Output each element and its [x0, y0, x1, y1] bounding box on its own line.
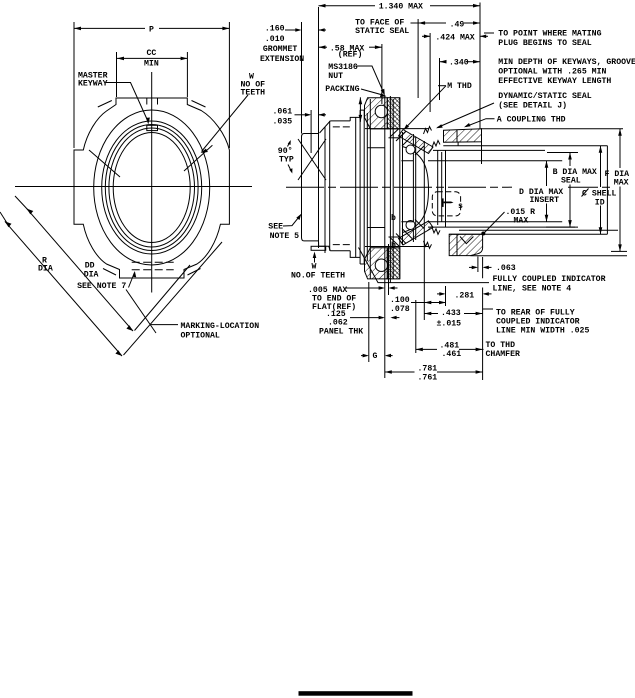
svg-text:.078: .078 [390, 305, 410, 314]
dimension R DIA [5, 221, 122, 356]
svg-text:.160: .160 [265, 25, 285, 34]
svg-text:A COUPLING THD: A COUPLING THD [497, 116, 566, 125]
dimension .340 [440, 61, 447, 63]
nut height mini dimension [359, 97, 361, 122]
svg-text:CHAMFER: CHAMFER [486, 350, 520, 359]
svg-text:DIA: DIA [38, 265, 53, 274]
teeth disk OD bottom [367, 227, 385, 229]
svg-text:MIN: MIN [144, 59, 159, 68]
svg-text:.035: .035 [273, 118, 293, 127]
svg-text:.061: .061 [273, 108, 293, 117]
svg-text:MARKING-LOCATION: MARKING-LOCATION [181, 322, 260, 331]
shell mid line [324, 127, 326, 253]
svg-text:b: b [391, 241, 396, 251]
svg-text:SEE: SEE [268, 223, 283, 232]
svg-text:PLUG BEGINS TO SEAL: PLUG BEGINS TO SEAL [498, 39, 591, 48]
serration tick upper-right [184, 145, 212, 171]
shell neck line [402, 132, 404, 245]
indicator line verticals [478, 257, 483, 279]
corner seam SE [188, 269, 201, 276]
hatch strokes seal zone bottom [390, 220, 424, 247]
svg-text:.281: .281 [455, 292, 475, 301]
svg-text:SEAL: SEAL [561, 176, 581, 185]
corner seam SW [103, 269, 116, 276]
coupling inner lip lines [457, 130, 458, 256]
svg-text:.461: .461 [442, 350, 462, 359]
svg-text:.063: .063 [496, 264, 516, 273]
panel left face [384, 96, 386, 378]
DD hidden dashed lines [132, 261, 174, 263]
seal face line [423, 141, 425, 320]
nut skirt edge bottom [389, 236, 401, 238]
shell body bottom edge [330, 250, 350, 252]
svg-text:MAX: MAX [614, 178, 629, 187]
M thread zigzag bottom [424, 241, 432, 249]
svg-text:COUPLED INDICATOR: COUPLED INDICATOR [496, 318, 580, 327]
svg-text:.433: .433 [441, 309, 461, 318]
svg-text:TYP: TYP [279, 155, 294, 164]
coupling nut top section [444, 129, 482, 143]
svg-text:MAX: MAX [514, 217, 529, 226]
section centerline [286, 186, 512, 188]
corner seam NE [192, 101, 206, 108]
shell front face [606, 146, 608, 235]
MS3186 nut bottom section [365, 248, 388, 279]
teeth ring faces [355, 117, 357, 257]
svg-text:(SEE DETAIL J): (SEE DETAIL J) [498, 101, 567, 111]
dimension 1.340 MAX [319, 5, 376, 7]
svg-text:.340: .340 [449, 59, 469, 68]
svg-text:NO.OF TEETH: NO.OF TEETH [291, 271, 345, 280]
svg-text:s: s [458, 202, 463, 211]
svg-text:MIN DEPTH OF KEYWAYS, GROOVE: MIN DEPTH OF KEYWAYS, GROOVE [498, 58, 635, 67]
svg-text:LINE, SEE NOTE 4: LINE, SEE NOTE 4 [493, 285, 572, 294]
tooth circle 3 [109, 128, 195, 247]
dimension DD DIA [27, 209, 133, 331]
M thread zigzag top [424, 127, 432, 135]
nut skirt line [392, 99, 394, 279]
svg-text:1.340 MAX: 1.340 MAX [379, 3, 423, 12]
svg-text:G: G [373, 352, 378, 361]
hatch strokes seal zone top [390, 129, 424, 156]
horizontal centerline [15, 186, 252, 188]
svg-text:.062: .062 [328, 319, 348, 328]
svg-text:DYNAMIC/STATIC SEAL: DYNAMIC/STATIC SEAL [498, 91, 591, 101]
corner seam NW [98, 101, 112, 108]
teeth disk OD top [367, 147, 385, 149]
nut upper edge bottom [365, 246, 429, 248]
svg-text:.100: .100 [390, 296, 410, 305]
dimension .49 [418, 22, 446, 24]
front shell ID bottom [449, 233, 607, 235]
svg-text:.424 MAX: .424 MAX [435, 33, 474, 42]
svg-text:TEETH: TEETH [241, 88, 266, 97]
coupling OD bottom line [471, 255, 628, 257]
seal bore bottom long [459, 229, 618, 231]
inner ring edge ellipse [94, 110, 210, 265]
detail J dashed boundary [432, 192, 460, 216]
svg-text:PANEL THK: PANEL THK [319, 328, 363, 337]
svg-text:DIA: DIA [84, 270, 99, 279]
thread crest line [415, 137, 417, 240]
seal cavity walls [438, 150, 446, 227]
svg-text:b: b [391, 213, 396, 223]
leader SEE NOTE 7 [129, 273, 135, 288]
packing gland crosshatch top [387, 98, 400, 129]
insert bore top [401, 160, 562, 162]
dimension P [74, 27, 145, 29]
hidden line top [333, 126, 352, 128]
bell curve [403, 147, 429, 233]
master keyway slot top [147, 98, 158, 105]
grommet body [302, 134, 319, 241]
shell body inner line [329, 121, 331, 251]
thread root line [412, 134, 414, 242]
svg-text:OPTIONAL: OPTIONAL [181, 332, 220, 341]
packing ball top [375, 105, 387, 117]
svg-text:.010: .010 [265, 35, 285, 44]
svg-text:TO THD: TO THD [486, 341, 516, 350]
dimension CC MIN [117, 57, 188, 59]
svg-text:OPTIONAL WITH .265 MIN: OPTIONAL WITH .265 MIN [498, 68, 606, 77]
svg-text:EXTENSION: EXTENSION [260, 55, 304, 64]
dimension .58 MAX (REF) [319, 46, 328, 48]
svg-text:PACKING: PACKING [325, 85, 359, 94]
svg-text:P: P [149, 26, 154, 35]
svg-text:ID: ID [595, 198, 605, 207]
svg-text:EFFECTIVE KEYWAY LENGTH: EFFECTIVE KEYWAY LENGTH [498, 77, 611, 86]
svg-text:LINE MIN WIDTH .025: LINE MIN WIDTH .025 [496, 327, 589, 336]
nut skirt edge top [389, 137, 401, 139]
svg-text:.781: .781 [418, 365, 438, 374]
svg-text:±.015: ±.015 [437, 320, 462, 329]
seal bore top [433, 150, 578, 152]
packing gland crosshatch bottom [387, 248, 400, 279]
svg-text:TO REAR OF FULLY: TO REAR OF FULLY [496, 309, 575, 318]
svg-text:M THD: M THD [447, 82, 472, 91]
nut lower edge top [365, 128, 429, 130]
front shell ID top [443, 145, 607, 147]
shell rear chamfer top [320, 121, 331, 133]
svg-text:SEE NOTE 7: SEE NOTE 7 [77, 282, 126, 291]
seal o-ring bottom [406, 221, 415, 230]
shell body top edge [330, 120, 350, 122]
90 deg chamfer X [298, 139, 326, 180]
extension line lower to DD tip [135, 265, 191, 331]
svg-text:FULLY COUPLED INDICATOR: FULLY COUPLED INDICATOR [493, 275, 606, 284]
seal o-ring top [406, 145, 415, 154]
extension line lower to R tip [124, 242, 223, 355]
svg-text:INSERT: INSERT [530, 196, 560, 205]
seal bore bottom [428, 226, 575, 228]
gland right edge [399, 98, 401, 279]
dimension .424 MAX [422, 35, 430, 37]
master keyway inner rect [147, 125, 158, 130]
grommet rear tab [319, 243, 331, 251]
coupling OD top line [482, 128, 624, 130]
body step top [350, 117, 360, 257]
bore circle [113, 133, 190, 243]
svg-text:GROMMET: GROMMET [263, 45, 297, 54]
svg-text:C SHELL: C SHELL [582, 190, 616, 199]
dynamic seal top [399, 130, 434, 154]
label TO POINT WHERE MATING PLUG BEGINS TO SEAL [484, 32, 494, 34]
thread vee in bottom nut [460, 237, 473, 244]
bayonet pin in detail J [442, 198, 444, 207]
svg-text:(REF): (REF) [338, 50, 363, 60]
svg-text:DD: DD [85, 262, 95, 271]
tooth circle 1 [102, 121, 202, 254]
extension line upper for DD [15, 196, 29, 211]
svg-text:TO POINT WHERE MATING: TO POINT WHERE MATING [498, 29, 601, 38]
MS3186 nut top section [365, 98, 388, 129]
svg-text:W: W [312, 263, 317, 272]
extension line upper for R [0, 212, 7, 223]
panel right face [389, 96, 391, 283]
svg-text:.761: .761 [418, 374, 438, 383]
coupling nut bottom section [449, 234, 482, 255]
ring front face [369, 99, 371, 279]
grommet inner step line [310, 110, 312, 153]
svg-text:.49: .49 [450, 21, 465, 30]
svg-text:KEYWAY: KEYWAY [78, 79, 108, 88]
shell rear face line [318, 7, 320, 248]
outer shell contour with flats [74, 98, 229, 278]
vertical centerline [151, 72, 153, 293]
insert bore bottom [401, 221, 562, 223]
svg-text:.481: .481 [440, 341, 460, 350]
bottom black bar [299, 691, 413, 696]
svg-text:STATIC SEAL: STATIC SEAL [355, 27, 409, 36]
svg-text:CC: CC [147, 49, 157, 58]
hidden line bottom [333, 244, 352, 246]
svg-text:NOTE 5: NOTE 5 [270, 232, 300, 241]
packing ball bottom [375, 259, 387, 271]
serration tick upper-left [89, 150, 120, 177]
svg-text:NUT: NUT [328, 72, 343, 81]
tooth circle 2 [105, 125, 198, 251]
svg-text:MS3186: MS3186 [328, 63, 358, 72]
dynamic seal bottom [399, 221, 434, 245]
